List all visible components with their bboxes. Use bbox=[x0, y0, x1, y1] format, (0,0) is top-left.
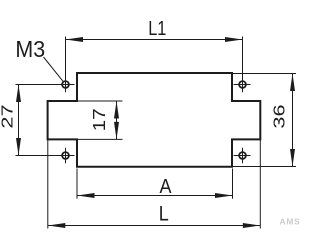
arrow L left bbox=[48, 223, 66, 228]
dimension line 36 bbox=[292, 74, 294, 167]
extension line top edge right (to 36) bbox=[233, 73, 296, 75]
extension line L right bbox=[259, 140, 261, 229]
arrow 36 down bbox=[290, 149, 295, 167]
hole TR bbox=[239, 81, 246, 88]
svg-text:L: L bbox=[159, 202, 169, 226]
svg-text:AMS: AMS bbox=[279, 217, 300, 227]
crosshair TR hole horizontal bbox=[234, 84, 251, 86]
arrow 27 down bbox=[16, 138, 21, 156]
crosshair BR hole horizontal bbox=[234, 155, 251, 157]
dimension line 17 bbox=[116, 101, 118, 139]
dimension line L bbox=[48, 225, 260, 227]
extension line bottom holes horizontal left (to 27) bbox=[16, 155, 75, 157]
extension line A left bbox=[76, 169, 78, 199]
crosshair BR hole vertical bbox=[242, 148, 244, 163]
extension line L left bbox=[47, 140, 49, 229]
arrow A right bbox=[215, 193, 233, 198]
dimension line L1 bbox=[66, 39, 243, 41]
extension line TL hole vertical (to L1) bbox=[65, 37, 67, 93]
extension line top holes horizontal left (to 27) bbox=[16, 84, 75, 86]
extension line 17 bottom bbox=[78, 138, 123, 140]
svg-text:17: 17 bbox=[89, 108, 109, 131]
svg-text:M3: M3 bbox=[15, 36, 45, 62]
arrow 17 up bbox=[114, 101, 119, 119]
extension line A right bbox=[232, 169, 234, 199]
extension line TR hole vertical (to L1) bbox=[242, 37, 244, 93]
panel cutout outline bbox=[48, 73, 261, 167]
arrow L right bbox=[243, 223, 260, 228]
svg-text:27: 27 bbox=[0, 104, 16, 128]
crosshair BL hole vertical bbox=[65, 148, 67, 163]
svg-text:L1: L1 bbox=[148, 16, 166, 39]
arrow 17 down bbox=[114, 122, 119, 139]
arrow A left bbox=[77, 193, 95, 198]
arrow 27 up bbox=[16, 85, 21, 103]
arrow L1 right bbox=[225, 37, 243, 42]
dimension line 27 bbox=[18, 85, 20, 156]
arrow L1 left bbox=[66, 37, 84, 42]
extension line 17 top bbox=[78, 100, 123, 102]
svg-text:36: 36 bbox=[271, 104, 288, 128]
dimension line A bbox=[77, 195, 233, 197]
extension line bottom edge right (to 36) bbox=[233, 166, 296, 168]
hole BL bbox=[62, 152, 69, 159]
leader M3 bbox=[44, 57, 64, 81]
hole TL bbox=[62, 81, 69, 88]
hole BR bbox=[239, 152, 246, 159]
arrow 36 up bbox=[290, 74, 295, 92]
svg-text:A: A bbox=[160, 176, 172, 198]
